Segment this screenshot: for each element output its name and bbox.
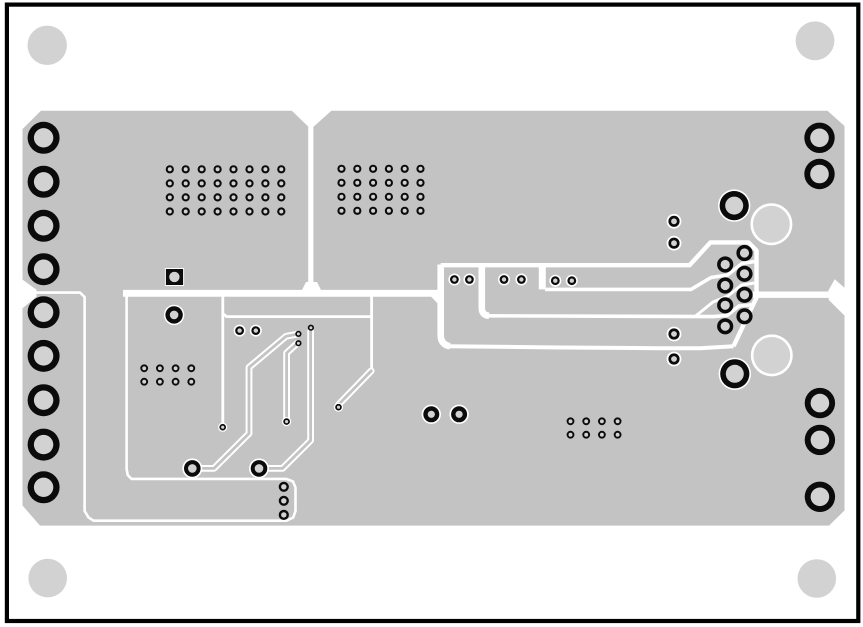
via array A1 8x4: [166, 165, 286, 215]
via right of island: [334, 403, 343, 412]
small vias at trace tops: [295, 325, 314, 347]
square pad pin 1: [165, 268, 184, 286]
via array A3 4x2: [140, 364, 195, 385]
right pads bottom group: [805, 388, 835, 512]
round pad below square: [164, 305, 184, 325]
notch wedge at right board edge: [828, 279, 846, 317]
via array A2 6x4: [337, 165, 424, 215]
pad at island bottom left: [182, 458, 202, 478]
trace clearance from bar down to via: [221, 313, 224, 424]
pad D1 upper right: [718, 189, 750, 221]
pad pair group 2: [498, 274, 527, 286]
mid pads pair: [422, 405, 469, 424]
finger channel L1 top and cluster right boundary: [441, 242, 757, 346]
island top bar outline: [223, 295, 372, 317]
via cluster left column: [717, 256, 733, 334]
left connector pads J1 top group: [28, 122, 60, 285]
trace clearance island right edge: [342, 294, 372, 403]
finger vertical channel W3: [441, 265, 450, 347]
trace pad to via: [259, 331, 311, 468]
pad D2 lower right: [719, 358, 751, 390]
finger connector at x481.8: [482, 265, 489, 316]
island pad pair: [234, 325, 262, 337]
trace diagonal to island edge: [339, 371, 372, 405]
trace pad to via through bends: [192, 334, 297, 468]
right pads top pair: [804, 123, 834, 190]
finger channel L5 bottom: [447, 346, 734, 348]
3 vias in power bar end: [279, 482, 289, 520]
flare joining vertical gap to main channel: [301, 282, 323, 293]
cluster separator channel: [695, 283, 755, 317]
via mid island: [282, 417, 291, 426]
via cluster right column: [736, 245, 752, 325]
main horizontal channel island top: [123, 290, 439, 297]
finger channel L2 to cluster: [545, 262, 755, 290]
via pair lower mid: [667, 327, 682, 367]
unplated hole upper: [750, 203, 792, 245]
trace via to via: [287, 344, 297, 419]
left horizontal gap and power-bar outline: [21, 293, 296, 521]
mounting hole bottom-left: [28, 559, 67, 598]
mounting hole top-right: [796, 21, 835, 60]
via array A4 4x2: [567, 417, 622, 438]
split notch at top edge between left and right pours: [291, 110, 333, 127]
right main channel to board edge notch: [753, 292, 830, 298]
pad pair group 1: [448, 274, 475, 286]
vertical isolation gap between top pours: [308, 112, 313, 287]
copper pour: [23, 111, 845, 526]
fillet at channel junction: [431, 296, 442, 307]
mounting hole bottom-right: [798, 559, 837, 598]
via on vertical trace: [218, 423, 227, 432]
finger step connector at x542.3: [539, 264, 546, 290]
gap mouth at left board edge: [21, 279, 37, 310]
pad at island bottom right: [249, 458, 269, 478]
via pair upper mid: [667, 214, 682, 251]
left connector pads J1 bottom group: [28, 296, 60, 503]
mounting hole top-left: [28, 26, 67, 65]
pad pair group 3: [549, 275, 578, 287]
unplated hole lower: [751, 334, 793, 376]
finger channel L4 to cluster: [489, 305, 755, 317]
